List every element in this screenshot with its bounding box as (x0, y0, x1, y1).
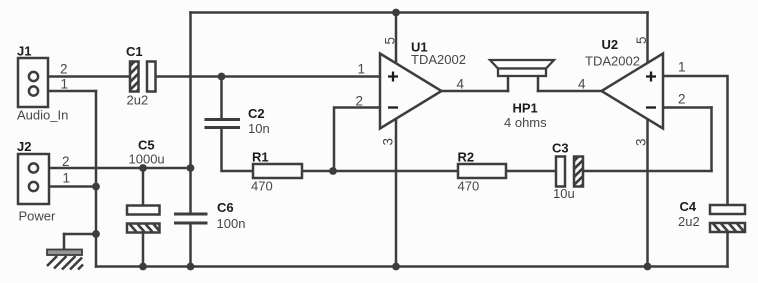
svg-text:TDA2002: TDA2002 (411, 52, 466, 67)
node junction audio / C2 (218, 73, 226, 81)
svg-text:2: 2 (356, 94, 364, 109)
svg-text:R1: R1 (252, 150, 269, 165)
svg-text:C5: C5 (138, 138, 155, 153)
svg-text:1: 1 (678, 60, 686, 75)
resistor R2 (458, 164, 506, 178)
wire U2 pin2 riser vertical (710, 108, 713, 172)
wire U2 pin3 to ground rail (646, 118, 649, 267)
capacitor C5 (127, 206, 160, 233)
svg-text:2: 2 (60, 62, 68, 77)
wire feedback node to R2 (333, 170, 458, 173)
svg-text:C1: C1 (126, 44, 143, 59)
svg-text:1: 1 (63, 171, 71, 186)
wire J1.1 to ground column (37, 90, 96, 93)
ground (47, 250, 83, 270)
svg-text:2u2: 2u2 (678, 214, 700, 229)
wire R1 to feedback node (302, 170, 333, 173)
wire C3 to U2 pin2 riser (583, 170, 712, 173)
wire HP1 right leg (537, 76, 540, 91)
wire +V rail vertical upper (189, 13, 192, 169)
node junction U1 pin3 on ground rail (392, 263, 400, 271)
svg-text:2: 2 (62, 154, 70, 169)
wire ground branch horizontal (64, 233, 96, 236)
wire +V rail to C6 top (189, 168, 192, 213)
node junction +V rail corner (187, 164, 195, 172)
wire R2 to C3 (506, 170, 556, 173)
capacitor C2 (205, 120, 241, 128)
svg-text:J2: J2 (17, 139, 31, 154)
node junction feedback R1/R2/U1.2 (329, 167, 337, 175)
svg-text:1000u: 1000u (129, 152, 165, 167)
node junction C5 on +V (139, 164, 147, 172)
svg-text:HP1: HP1 (513, 101, 538, 116)
wire top +V rail horizontal (191, 11, 648, 14)
node junction U1 pin5 on +V (392, 9, 400, 17)
node junction U2 pin3 on ground rail (644, 263, 652, 271)
wire C2 upper stem (220, 77, 223, 119)
wire U1 pin2 feedback vertical (334, 108, 379, 172)
svg-text:3: 3 (634, 138, 649, 146)
wire U2 pin5 stub (646, 13, 649, 63)
wire U1 pin3 to ground rail (395, 118, 398, 267)
resistor R1 (253, 164, 302, 178)
node junction C6 on ground rail (187, 263, 195, 271)
svg-text:C2: C2 (248, 106, 265, 121)
svg-text:C4: C4 (680, 199, 697, 214)
capacitor C1 (126, 54, 156, 102)
wire U2 pin1 to C4 (663, 76, 728, 205)
connector J1 (18, 58, 48, 107)
svg-text:2: 2 (678, 92, 686, 107)
svg-text:470: 470 (458, 179, 480, 194)
svg-text:2u2: 2u2 (127, 93, 149, 108)
svg-text:1: 1 (358, 62, 366, 77)
svg-text:4 ohms: 4 ohms (504, 115, 547, 130)
svg-text:Power: Power (19, 209, 57, 224)
node junction C5 on ground rail (139, 263, 147, 271)
wire ground branch vertical (63, 234, 66, 250)
wire HP1 to U2 pin4 output (538, 90, 602, 93)
wire C5 upper stem (142, 168, 145, 206)
svg-text:100n: 100n (217, 216, 246, 231)
wire C2 lower stem to R1 (222, 129, 254, 171)
wire U2 pin2 stub (663, 106, 712, 109)
svg-text:5: 5 (634, 36, 649, 44)
svg-text:4: 4 (457, 77, 465, 92)
svg-text:10n: 10n (248, 121, 270, 136)
svg-text:470: 470 (251, 179, 273, 194)
capacitor C4 (710, 205, 745, 232)
svg-text:5: 5 (383, 37, 398, 45)
svg-text:J1: J1 (17, 44, 31, 59)
svg-text:C6: C6 (217, 200, 234, 215)
capacitor C3 (556, 148, 587, 197)
svg-text:C3: C3 (552, 141, 569, 156)
capacitor C6 (174, 214, 208, 223)
svg-text:U2: U2 (602, 37, 619, 52)
node junction ground branch (92, 230, 100, 238)
svg-text:1: 1 (61, 77, 69, 92)
wire C6 bottom to ground rail (189, 225, 192, 267)
wire C4 lower stem (726, 232, 729, 267)
wire J2.1 to ground column (37, 185, 96, 188)
wire C5 lower stem (142, 233, 145, 267)
wire U1 pin4 output to HP1 (442, 90, 509, 93)
svg-text:TDA2002: TDA2002 (585, 54, 640, 69)
wire HP1 left leg (507, 76, 510, 91)
wire audio J1.2 to C1 (37, 75, 130, 78)
svg-text:10u: 10u (553, 186, 575, 201)
wire J2.2 to +V rail (37, 167, 191, 170)
wire U1 pin5 stub (395, 13, 398, 63)
op-amp U2 (602, 54, 664, 129)
svg-text:R2: R2 (458, 150, 475, 165)
op-amp U1 (380, 54, 442, 129)
speaker HP1 (490, 60, 554, 76)
svg-text:4: 4 (578, 77, 586, 92)
svg-text:Audio_In: Audio_In (17, 108, 68, 123)
wire bottom ground rail (96, 265, 728, 268)
wire ground column vertical (95, 91, 98, 267)
wire audio C1 to U1 pin1 (155, 75, 379, 78)
connector J2 (18, 154, 49, 204)
node junction J2.1 / ground column (92, 183, 100, 191)
svg-text:3: 3 (381, 138, 396, 146)
